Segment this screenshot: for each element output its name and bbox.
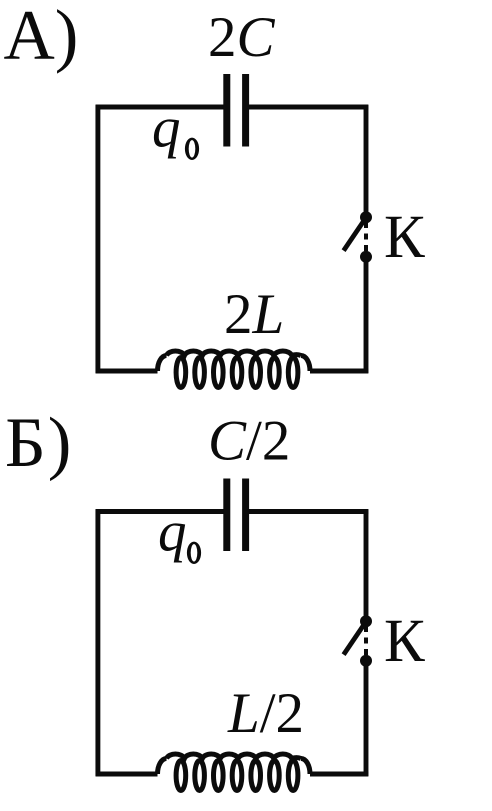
inductor L/2 coil of circuit B bbox=[158, 754, 311, 791]
wire: right side lower of circuit B bbox=[364, 662, 369, 777]
loops bbox=[176, 761, 186, 791]
switch K of circuit A: dashed gap line bbox=[364, 222, 368, 252]
loops bbox=[176, 358, 186, 388]
svg-text:К: К bbox=[384, 204, 425, 271]
capacitor 2C plates bbox=[227, 74, 246, 147]
wire: left side of circuit B bbox=[95, 509, 100, 776]
svg-text:L/2: L/2 bbox=[227, 682, 304, 745]
wire: bottom-right segment of circuit B bbox=[310, 772, 368, 777]
wire: left side of circuit A bbox=[95, 105, 100, 374]
exit fall bbox=[301, 759, 310, 775]
svg-text:q: q bbox=[158, 501, 187, 564]
switch K of circuit B: blade bbox=[344, 622, 366, 654]
svg-text:Б): Б) bbox=[5, 404, 73, 482]
wire: top-left segment of circuit B bbox=[96, 509, 224, 514]
entry rise bbox=[158, 759, 167, 775]
switch K of circuit A: top contact dot bbox=[360, 211, 372, 223]
wire: bottom-left segment of circuit B bbox=[96, 772, 158, 777]
top humps bbox=[167, 754, 302, 759]
switch K of circuit A: blade bbox=[344, 218, 366, 250]
wire: right side lower of circuit A (switch bottom dot to bottom corner) bbox=[364, 258, 369, 374]
switch K of circuit A: bottom contact dot bbox=[360, 251, 372, 263]
svg-text:К: К bbox=[384, 608, 425, 675]
wire: bottom-left segment of circuit A (corner to coil) bbox=[96, 369, 158, 374]
switch K of circuit B: bottom contact dot bbox=[360, 655, 372, 667]
exit fall bbox=[301, 356, 310, 372]
wire: right side upper of circuit A (corner down to switch top dot) bbox=[364, 105, 369, 217]
switch K of circuit B: top contact dot bbox=[360, 615, 372, 627]
wire: right side upper of circuit B bbox=[364, 509, 369, 620]
capacitor C/2 plates bbox=[227, 479, 246, 552]
inductor 2L coil of circuit A bbox=[158, 351, 311, 388]
svg-text:2C: 2C bbox=[208, 6, 276, 69]
wire: top-right segment of circuit B bbox=[249, 509, 368, 514]
wire: top-left segment of circuit A (left end to capacitor left plate) bbox=[96, 105, 224, 110]
svg-text:q: q bbox=[152, 97, 181, 160]
top humps bbox=[167, 351, 302, 356]
svg-text:А): А) bbox=[4, 0, 79, 75]
wire: top-right segment of circuit A (capacitor right plate to right corner) bbox=[249, 105, 368, 110]
switch K of circuit B: dashed gap line bbox=[364, 626, 368, 656]
svg-text:2L: 2L bbox=[224, 283, 284, 346]
entry rise bbox=[158, 356, 167, 372]
svg-text:C/2: C/2 bbox=[208, 410, 290, 473]
wire: bottom-right segment of circuit A (coil to corner) bbox=[310, 369, 368, 374]
